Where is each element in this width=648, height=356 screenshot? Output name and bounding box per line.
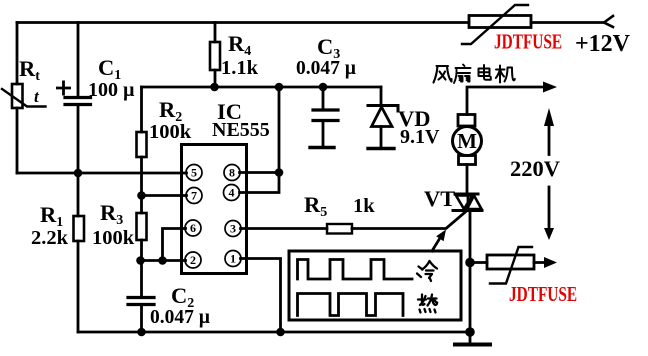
svg-text:R5: R5 <box>304 192 327 220</box>
svg-text:100k: 100k <box>149 121 192 143</box>
svg-text:+12V: +12V <box>575 31 631 57</box>
svg-text:100k: 100k <box>92 227 135 249</box>
svg-text:2: 2 <box>190 253 196 267</box>
svg-text:0.047 µ: 0.047 µ <box>150 307 210 328</box>
svg-text:2.2k: 2.2k <box>31 227 69 249</box>
svg-text:t: t <box>34 87 40 106</box>
svg-text:3: 3 <box>230 222 236 236</box>
svg-text:JDTFUSE: JDTFUSE <box>494 30 562 53</box>
svg-text:8: 8 <box>229 166 235 180</box>
svg-text:220V: 220V <box>510 156 560 181</box>
svg-text:6: 6 <box>190 221 196 235</box>
svg-text:VT: VT <box>424 186 455 211</box>
svg-text:9.1V: 9.1V <box>400 126 440 148</box>
svg-text:M: M <box>457 129 477 153</box>
svg-text:R1: R1 <box>40 202 63 230</box>
svg-text:1: 1 <box>230 252 236 266</box>
svg-text:5: 5 <box>191 166 197 180</box>
svg-text:R3: R3 <box>100 200 123 228</box>
svg-text:NE555: NE555 <box>212 119 270 141</box>
svg-text:1k: 1k <box>353 195 375 217</box>
svg-text:7: 7 <box>191 189 197 203</box>
svg-text:100 µ: 100 µ <box>88 79 135 101</box>
svg-text:Rt: Rt <box>19 56 40 84</box>
svg-text:0.047 µ: 0.047 µ <box>296 58 356 79</box>
svg-text:R4: R4 <box>228 31 251 59</box>
svg-text:JDTFUSE: JDTFUSE <box>509 283 577 306</box>
svg-text:1.1k: 1.1k <box>221 57 259 79</box>
svg-text:4: 4 <box>229 186 235 200</box>
